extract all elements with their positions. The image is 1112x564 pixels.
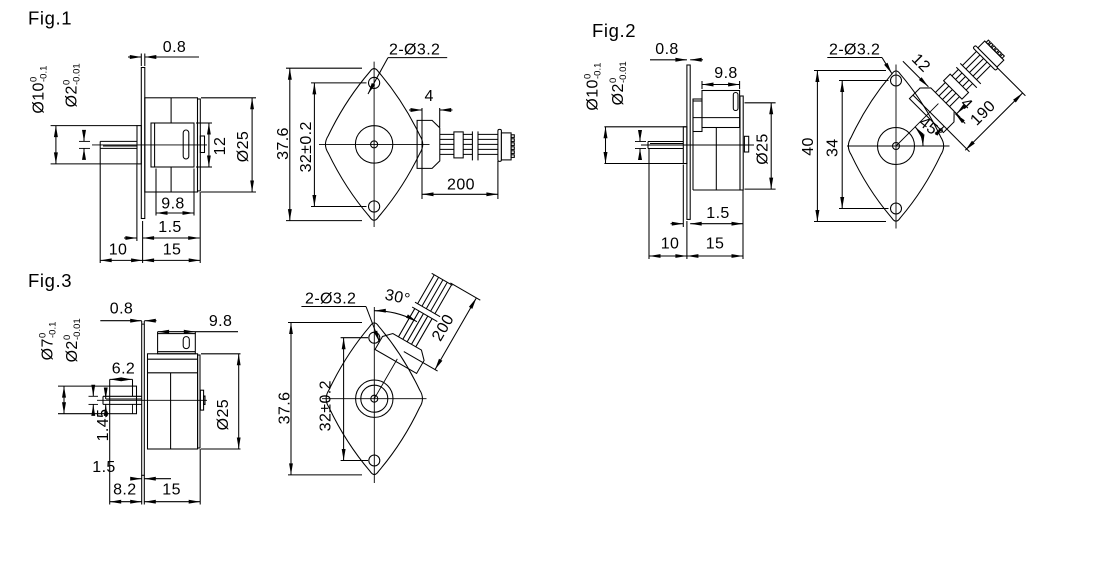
Fig.3 side: gearbox body: [148, 354, 198, 449]
ribbon cable continued: [478, 133, 498, 135]
Fig.2 front: shaft hole: [893, 143, 900, 150]
svg-text:15: 15: [163, 242, 182, 259]
Fig.2 side: rear bearing stub: [744, 136, 748, 152]
cable break marks: [412, 307, 437, 322]
Fig.3 side: end cap: [198, 355, 200, 448]
Fig.3 front: centerlines: [322, 398, 427, 400]
dim Ø2 -0.01 Fig.3: [62, 318, 83, 362]
svg-text:Ø7: Ø7: [40, 338, 57, 360]
Fig.2 front: flange outline: [848, 71, 943, 221]
svg-text:Ø25: Ø25: [755, 133, 772, 164]
svg-text:-0.1: -0.1: [48, 322, 59, 338]
dim Ø10 -0.1 (boss diameter): [29, 66, 50, 114]
Fig.1 front: centerlines: [319, 143, 430, 145]
Fig.3 side: body seam line: [170, 373, 172, 449]
svg-text:Ø2: Ø2: [64, 340, 81, 362]
svg-text:Fig.1: Fig.1: [28, 8, 72, 29]
Fig.1 side: motor body: [145, 98, 198, 192]
Fig.3 front: lead axis line: [374, 359, 397, 399]
Fig.3 side: mounting flange plate: [142, 324, 145, 475]
Fig.3 side: rear bearing stub: [200, 390, 203, 410]
Fig.2 side: stator slot: [733, 93, 738, 111]
Fig.2 side: pilot boss: [683, 127, 687, 164]
svg-text:Ø2: Ø2: [64, 85, 81, 107]
Fig.1 side: rear bearing stub: [200, 136, 204, 153]
svg-text:0.8: 0.8: [655, 41, 678, 58]
Fig.1 front: flange outline: [325, 69, 422, 221]
Fig.3 side: stator slot: [183, 337, 189, 349]
ribbon cable: [935, 69, 958, 92]
Fig.1 front: shaft hole: [371, 141, 378, 148]
connector end bar: [498, 129, 502, 161]
Fig.1 front: mounting hole top: [369, 77, 380, 88]
dim Ø2 -0.01 Fig.2: [608, 61, 629, 105]
Fig.3 front: boss circle: [361, 385, 388, 412]
svg-text:9.8: 9.8: [209, 313, 232, 330]
Fig.1 side: shaft flat line: [103, 145, 137, 147]
svg-text:15: 15: [162, 482, 181, 499]
svg-text:12: 12: [908, 51, 933, 76]
Fig.1 front: mounting hole bottom: [369, 201, 380, 212]
svg-text:40: 40: [800, 137, 817, 156]
svg-text:2-Ø3.2: 2-Ø3.2: [389, 42, 440, 59]
ribbon cable: [398, 309, 414, 337]
cable break marks: [471, 131, 473, 160]
svg-text:-0.1: -0.1: [39, 66, 50, 82]
svg-text:1.5: 1.5: [92, 459, 115, 476]
cable break marks: [956, 67, 977, 88]
svg-text:30°: 30°: [383, 287, 411, 309]
Fig.3 side: gearbox split line: [148, 372, 198, 374]
Fig.2 front: connector axis line: [896, 104, 938, 146]
svg-text:32±0.2: 32±0.2: [298, 121, 315, 172]
svg-text:0.8: 0.8: [163, 39, 186, 56]
Fig.3 side: boss: [110, 386, 137, 414]
Fig.3 front: shaft hole: [371, 395, 378, 402]
Fig.2 front: mounting hole bottom: [891, 203, 902, 214]
svg-text:-0.01: -0.01: [72, 318, 83, 340]
ribbon cable: [440, 133, 473, 135]
svg-text:2-Ø3.2: 2-Ø3.2: [305, 291, 356, 308]
svg-text:9.8: 9.8: [161, 196, 184, 213]
connector pins: [986, 40, 990, 44]
Fig.3 side: stator block: [158, 334, 196, 354]
Fig.2 side: motor body: [692, 99, 694, 190]
Fig.2 front: connector assembly at 45 deg: [909, 30, 1012, 133]
svg-text:Ø25: Ø25: [235, 131, 252, 162]
Fig.2 front: mounting hole top: [891, 75, 902, 86]
svg-text:12: 12: [212, 137, 229, 156]
Fig.1 side: mounting flange plate: [141, 68, 145, 219]
svg-text:2-Ø3.2: 2-Ø3.2: [829, 42, 880, 59]
Fig.1 front: pilot circle: [355, 126, 392, 163]
dim Ø7 -0.1 Fig.3: [38, 322, 59, 361]
svg-text:Ø25: Ø25: [215, 399, 232, 430]
connector pins: [511, 135, 514, 138]
svg-text:1.5: 1.5: [706, 205, 729, 222]
Fig.1 side: shaft: [100, 140, 137, 142]
Fig.3 front: mounting hole top: [369, 332, 380, 343]
Fig.1 side: centerline: [92, 144, 207, 146]
Fig.3 front: flange outline: [326, 323, 422, 475]
ribbon cable continued: [962, 51, 976, 65]
svg-text:6.2: 6.2: [112, 361, 135, 378]
wire housing: [909, 83, 959, 133]
Fig.2 side: stator strip: [693, 99, 702, 132]
Fig.2 front: centerlines: [847, 145, 950, 147]
svg-text:Ø2: Ø2: [610, 83, 627, 105]
Fig.2 side: stator block: [702, 91, 740, 128]
Fig.2 side: end cap: [740, 96, 743, 190]
ribbon cable continued: [418, 275, 435, 304]
svg-text:4: 4: [425, 88, 434, 105]
cable end cut: [432, 273, 453, 285]
svg-text:Fig.2: Fig.2: [592, 20, 636, 41]
svg-text:-0.1: -0.1: [593, 63, 604, 79]
Fig.2 side: mounting flange plate: [687, 65, 690, 219]
svg-text:1.5: 1.5: [158, 219, 181, 236]
Fig.1 side: stator block: [151, 123, 194, 167]
svg-text:10: 10: [661, 236, 680, 253]
cable sleeve: [454, 132, 463, 158]
svg-text:0.8: 0.8: [110, 301, 133, 318]
Fig.2 side: shaft: [648, 141, 683, 143]
Fig.2 side: body seam line: [715, 128, 717, 191]
svg-text:10: 10: [109, 242, 128, 259]
Fig.2 front: pilot circle: [878, 128, 915, 165]
svg-text:15: 15: [706, 236, 725, 253]
Fig.3 front: mounting hole bottom: [369, 455, 380, 466]
dim Ø10 -0.1 Fig.2: [583, 63, 604, 111]
Fig.3 side: shaft flat line: [106, 398, 142, 400]
svg-text:Ø10: Ø10: [31, 82, 48, 113]
wire housing: [417, 120, 440, 168]
svg-text:-0.01: -0.01: [618, 61, 629, 83]
Fig.1 side: pilot boss: [137, 126, 141, 164]
cable sleeve: [944, 74, 969, 99]
svg-text:9.8: 9.8: [714, 65, 737, 82]
svg-text:200: 200: [429, 312, 458, 345]
svg-text:34: 34: [825, 138, 842, 157]
connector body: [501, 133, 511, 160]
connector body: [978, 41, 1004, 67]
Fig.1 side: stator slot: [183, 130, 189, 159]
connector end bar: [973, 45, 998, 70]
svg-text:Fig.3: Fig.3: [28, 270, 72, 291]
Fig.3 front: lead assembly at 30 deg: [375, 268, 464, 374]
svg-text:8.2: 8.2: [113, 482, 136, 499]
Fig.1 side: end cap: [198, 99, 201, 191]
Fig.3 front: pilot circle: [356, 380, 393, 417]
Fig.1 side: body seam line: [170, 98, 172, 123]
Fig.3 side: shaft: [103, 395, 142, 397]
Fig.1 front: connector assembly: [417, 120, 514, 168]
svg-text:Ø10: Ø10: [585, 79, 602, 110]
Fig.2 side: shaft flat line: [650, 143, 683, 145]
svg-text:200: 200: [447, 177, 475, 194]
svg-text:-0.01: -0.01: [72, 63, 83, 85]
Fig.3 side: centerline: [97, 399, 207, 401]
svg-text:32±0.2: 32±0.2: [317, 380, 334, 431]
wire housing: [375, 330, 428, 374]
dim Ø2 -0.01 (shaft diameter): [62, 63, 83, 107]
Fig.2 side: centerline: [641, 144, 754, 146]
